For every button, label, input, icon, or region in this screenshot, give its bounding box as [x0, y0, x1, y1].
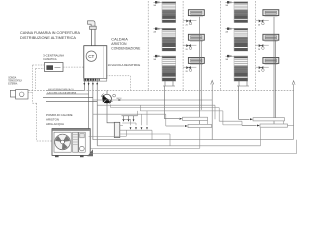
pipe nest 1 [120, 119, 131, 125]
valve P1.3 [183, 66, 196, 73]
radiator T2.3 [234, 56, 248, 81]
drain symbol [87, 149, 93, 156]
valve T1.3 [153, 55, 162, 61]
riser P2 [273, 17, 275, 125]
riser P1b [200, 40, 202, 110]
pipe main L4 [140, 105, 242, 125]
pipe bar 1R [239, 118, 285, 125]
pipe bottom 1 [89, 130, 127, 136]
svg-text:CALDAIA: CALDAIA [111, 37, 128, 41]
wire ctrl v1 [33, 65, 45, 103]
heat pump unit [52, 129, 90, 158]
zone line 4 [255, 1, 257, 90]
svg-text:ARIA-ACQUA: ARIA-ACQUA [46, 122, 64, 126]
valve T1.1 [153, 1, 162, 7]
svg-text:DISTRIBUZIONE ALTIMETRICA: DISTRIBUZIONE ALTIMETRICA [20, 36, 77, 40]
valve T2.1 [225, 1, 234, 7]
boiler connection strip [84, 78, 107, 81]
radiator T1.3 [162, 56, 176, 81]
manifold header drop [137, 111, 139, 116]
radiator T2.1 [234, 2, 248, 23]
svg-text:SONDA: SONDA [8, 76, 16, 79]
svg-text:10-VALVOLA DEVIATRICE: 10-VALVOLA DEVIATRICE [108, 64, 141, 67]
wire ctrl v2 [36, 69, 45, 91]
pipe bottom 4 [90, 128, 200, 148]
zone line 3 [220, 1, 222, 90]
zone line 2 [182, 1, 184, 90]
dashed callout valvola [106, 76, 130, 91]
riser P2b [275, 40, 277, 118]
riser P1 [199, 17, 201, 129]
radiator T2.2 [234, 28, 248, 51]
flue pipe [91, 30, 95, 46]
pipe bottom 3 [97, 128, 260, 146]
riser arrow A2 [292, 81, 295, 140]
legs T1.3 [163, 80, 175, 86]
stub pipe 1 [46, 81, 84, 90]
pipe nest 3 [141, 114, 143, 125]
pipe bottom 2 [93, 139, 294, 141]
boiler body [84, 46, 107, 79]
wire main L1 through pump [93, 99, 212, 101]
pipe main L3 [111, 105, 242, 126]
centralina box [45, 63, 64, 72]
sonda box [10, 90, 17, 97]
manifold feed arrows [124, 116, 134, 120]
svg-text:TERMOSTATICA: TERMOSTATICA [8, 79, 22, 82]
valve P2.2 [256, 44, 269, 51]
svg-text:CLIMATICA: CLIMATICA [43, 57, 57, 61]
manifold top header [122, 115, 138, 117]
valve T2.2 [225, 28, 234, 34]
riser T2 [238, 86, 240, 119]
manifold lower header [120, 130, 152, 140]
wire ctrl to heat pump [33, 103, 53, 141]
pipe nest 5 [120, 134, 170, 146]
wire centralina-boiler dashed [63, 66, 84, 68]
pump outlet down [107, 103, 114, 123]
svg-text:ARISTON: ARISTON [46, 118, 59, 122]
pipe bar 1L [165, 117, 208, 126]
radiator P2.2 [263, 34, 279, 41]
pipe main L2 [97, 105, 215, 119]
valve P2.1 [256, 20, 269, 27]
lower header arrowheads [130, 127, 148, 129]
svg-text:CANNA FUMARIA IN COPERTURA: CANNA FUMARIA IN COPERTURA [20, 31, 81, 35]
radiator P2.3 [263, 58, 279, 65]
legs T2.3 [237, 80, 249, 86]
valve P1.1 [183, 20, 196, 27]
radiator P2.1 [263, 10, 279, 17]
radiator P1.3 [188, 58, 204, 65]
stub pipe 4 [46, 81, 97, 146]
manifold [114, 122, 120, 137]
flue cap [88, 21, 97, 30]
svg-text:3-CENTRALINA: 3-CENTRALINA [43, 54, 64, 58]
stub arrowheads [83, 83, 98, 85]
stub pipe 2 [46, 81, 89, 136]
valve P1.2 [183, 44, 196, 51]
wire sonda dashed [28, 92, 33, 94]
svg-text:ARISTON: ARISTON [111, 42, 127, 46]
valve T1.2 [153, 28, 162, 34]
riser T1 [164, 86, 166, 119]
radiator T1.1 [162, 2, 176, 23]
pipe bar 2R [242, 124, 294, 127]
pipe nest 4 [146, 111, 148, 125]
riser arrow A1 [211, 80, 214, 139]
valve P2.3 [256, 66, 269, 73]
pipe bar 2L [166, 124, 212, 127]
radiator P1.2 [188, 34, 204, 41]
radiator T1.2 [162, 28, 176, 51]
valve T2.3 [225, 55, 234, 61]
pipe bottom 5 [90, 140, 296, 154]
svg-text:CONDENSAZIONE: CONDENSAZIONE [111, 46, 141, 50]
boiler CT dial [86, 51, 96, 61]
svg-text:5-ACCUMULO ACQUA SANITARIA: 5-ACCUMULO ACQUA SANITARIA [47, 92, 77, 95]
svg-text:POMPA DI CALORE: POMPA DI CALORE [46, 113, 73, 117]
svg-text:ESTERNA: ESTERNA [8, 82, 17, 85]
pipe main L5 [93, 114, 166, 126]
pump P1 [103, 94, 112, 103]
pump stub up [106, 90, 108, 94]
svg-text:CT: CT [88, 54, 94, 59]
radiator P1.1 [188, 10, 204, 17]
zone line 1 [147, 1, 149, 90]
pipe nest 2 [122, 123, 136, 125]
dashed floor line [29, 89, 294, 91]
stub pipe 3 [43, 81, 93, 140]
